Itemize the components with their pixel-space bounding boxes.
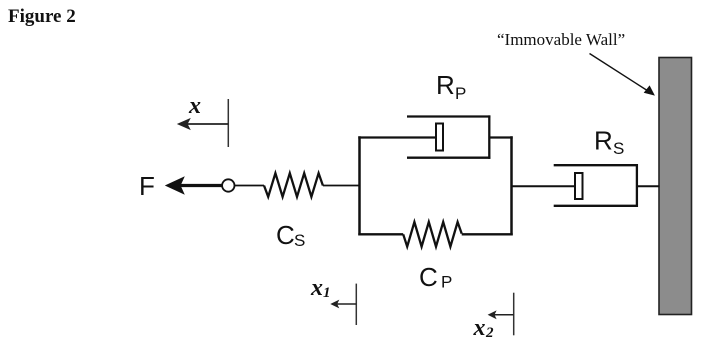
parallel box left vertical: [358, 136, 361, 235]
label Cs: [276, 220, 305, 250]
svg-text:R: R: [436, 70, 455, 100]
svg-text:1: 1: [323, 285, 331, 301]
damper Rp piston plate: [436, 124, 443, 151]
svg-text:Figure 2: Figure 2: [8, 6, 76, 27]
label x: [188, 93, 201, 119]
svg-text:C: C: [276, 220, 295, 250]
svg-text:x: x: [188, 93, 201, 119]
damper Rs cylinder: [554, 164, 638, 207]
displacement arrow x: [177, 118, 229, 130]
label Rs: [594, 126, 624, 159]
spring Cs: [264, 173, 323, 197]
displacement arrow x2: [488, 310, 514, 319]
wire from parallel box to damper Rs: [512, 185, 575, 187]
immovable wall: [659, 58, 692, 315]
leader arrow to wall: [590, 54, 655, 96]
svg-text:P: P: [455, 84, 466, 103]
parallel box right vertical: [510, 136, 513, 235]
svg-text:R: R: [594, 126, 613, 156]
damper Rp piston rod: [358, 136, 435, 138]
svg-text:C: C: [419, 262, 438, 292]
svg-text:P: P: [441, 273, 452, 292]
svg-text:S: S: [294, 231, 305, 250]
displacement marker x (reference line): [227, 99, 229, 147]
svg-text:“Immovable Wall”: “Immovable Wall”: [497, 30, 625, 49]
wire from spring Cs to parallel box: [323, 185, 359, 187]
svg-text:x: x: [473, 315, 486, 341]
node (pin joint circle): [222, 179, 234, 191]
label Cp: [419, 262, 452, 292]
displacement marker x2 (reference line): [513, 293, 515, 336]
bottom branch wire right: [462, 233, 513, 235]
force arrow F: [165, 176, 224, 194]
figure title "Figure 2": [8, 6, 76, 27]
label Rp: [436, 70, 466, 103]
label x1: [310, 275, 331, 301]
wire from damper Rp to right vertical: [489, 136, 512, 138]
svg-text:x: x: [310, 275, 323, 301]
label "Immovable Wall": [497, 30, 625, 49]
svg-text:F: F: [139, 171, 155, 201]
label F: [139, 171, 155, 201]
wire from node to spring Cs: [235, 185, 264, 187]
damper Rs piston plate: [575, 173, 583, 199]
wire from damper Rs to wall: [637, 185, 660, 187]
svg-text:2: 2: [485, 325, 494, 341]
damper Rp cylinder: [407, 115, 490, 158]
displacement marker x1 (reference line): [355, 284, 357, 325]
svg-text:S: S: [613, 139, 624, 158]
displacement arrow x1: [330, 300, 356, 309]
spring Cp: [403, 222, 462, 247]
bottom branch wire left: [358, 233, 403, 235]
label x2: [473, 315, 495, 341]
